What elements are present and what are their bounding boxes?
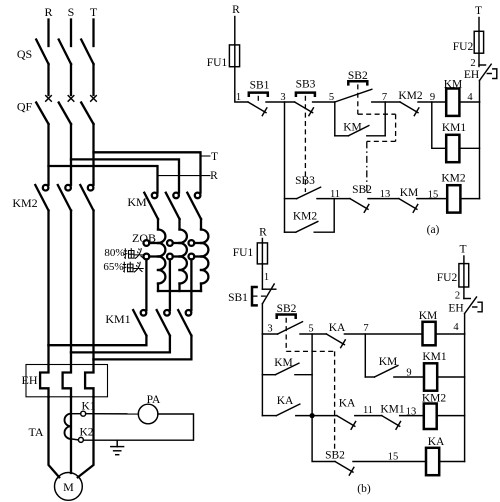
wire T to motor	[78, 397, 94, 478]
node K1 terminal	[71, 411, 86, 416]
relay EH box	[26, 365, 108, 397]
label KM1 coil (b)	[422, 351, 447, 363]
node 13 (b)	[406, 407, 417, 418]
node 2 (a)	[470, 58, 475, 69]
label K2	[79, 427, 93, 439]
wire PA loop to K2	[83, 414, 193, 440]
wire ZOB star point bus	[158, 290, 201, 292]
coil KM1 (a)	[446, 135, 459, 162]
breaker QF pole S	[59, 96, 74, 124]
svg-text:2: 2	[470, 58, 475, 69]
wire coil KM to node 4 (a)	[459, 101, 479, 103]
svg-text:T: T	[475, 5, 482, 17]
wire SB3 to node 5 (a)	[313, 101, 335, 103]
label KA mid (b)	[339, 398, 356, 410]
label SB3 (a)	[296, 79, 316, 91]
label FU1 (a)	[207, 57, 228, 69]
motor M	[55, 473, 83, 501]
node R control tap label	[210, 170, 218, 182]
svg-text:SB3: SB3	[295, 175, 315, 187]
wire node 5 drop (b)	[311, 334, 313, 416]
label KM1 NC (b)	[380, 404, 405, 416]
svg-text:4: 4	[453, 322, 459, 333]
contactor KM1 contact 3	[178, 310, 191, 336]
wire KM lower to coil KM2 (a)	[417, 198, 447, 200]
coil KM (b)	[423, 322, 436, 346]
node 11 (a)	[330, 189, 340, 200]
label SB2 lower (a)	[352, 184, 372, 196]
wire S QF to KM2 contact	[70, 124, 72, 185]
svg-text:5: 5	[329, 92, 334, 103]
svg-text:KA: KA	[277, 395, 294, 407]
svg-text:KM1: KM1	[380, 404, 405, 416]
wire FU2 to EH contact (a)	[478, 53, 480, 66]
wire R to motor	[49, 397, 60, 478]
node R supply (b)	[259, 227, 267, 239]
label 65% tap (65% chou-tou)	[103, 261, 143, 273]
svg-text:KA: KA	[428, 436, 445, 448]
wire 65% tap 3 down to KM1	[190, 259, 192, 310]
wire to KM contact (b left)	[262, 374, 275, 376]
wire right rail (b)	[464, 334, 466, 462]
button SB2 lower NC contact (a)	[350, 199, 369, 213]
svg-text:M: M	[63, 480, 74, 494]
wire KM2 aux to node 11 (a)	[314, 199, 334, 233]
node T supply (a)	[475, 5, 482, 17]
button SB1 NC contact (a)	[248, 102, 267, 116]
label KM2 coil (b)	[422, 393, 447, 405]
svg-text:KA: KA	[339, 398, 356, 410]
wire coil KM to node 4 (b)	[436, 333, 465, 335]
node 15 (b)	[388, 452, 399, 463]
contact KM2 NC interlock (a)	[400, 102, 419, 116]
svg-text:65%: 65%	[103, 261, 123, 273]
linkage SB1 dashed (b)	[253, 295, 267, 297]
node ZOB winding 2 80% tap	[167, 240, 180, 246]
wire KM contact 1 to winding	[157, 219, 159, 230]
wire R drop (b)	[261, 239, 263, 243]
button SB1 cap (b)	[252, 287, 257, 305]
label EH (b)	[448, 303, 463, 315]
relay contact KA NC (b main rung)	[326, 334, 345, 348]
wire node 3 branch down (a)	[284, 102, 286, 232]
node 15 (a)	[428, 190, 439, 201]
label QF	[17, 100, 33, 114]
button SB2 NO contact (b)	[278, 322, 303, 334]
fuse FU1 (a)	[229, 45, 239, 67]
wire coil KM1 to rail (b)	[437, 376, 464, 378]
relay contact EH NC (a)	[479, 64, 497, 80]
label FU1 (b)	[233, 247, 254, 259]
svg-text:(a): (a)	[427, 224, 440, 236]
wire S KM2 down to junction	[70, 211, 72, 353]
wire FU1 to rung (a)	[235, 67, 248, 102]
button SB1 NC contact vertical (b)	[262, 284, 275, 304]
heater EH element 2	[63, 352, 71, 396]
wire node 3 to SB2 (b)	[262, 333, 277, 335]
svg-text:80%: 80%	[104, 247, 124, 259]
wire R drop (a)	[234, 17, 236, 45]
label KA coil (b)	[428, 436, 445, 448]
svg-text:R: R	[210, 170, 218, 182]
svg-text:1: 1	[236, 92, 241, 103]
node 11 (b)	[363, 405, 373, 416]
wire R QF to KM2 contact	[47, 124, 49, 185]
wire branch line from R phase	[49, 166, 158, 193]
svg-text:R: R	[259, 227, 267, 239]
node 13 (a)	[380, 189, 391, 200]
label KM (b left)	[274, 357, 293, 369]
svg-text:KM: KM	[343, 122, 362, 134]
svg-text:QS: QS	[17, 47, 32, 61]
svg-text:11: 11	[363, 405, 373, 416]
label SB1 (a)	[250, 80, 270, 92]
node 7 (a)	[382, 92, 387, 103]
label QS	[17, 47, 32, 61]
contact KM2 NO aux (a)	[296, 222, 318, 233]
wire EH to node 4 (b)	[464, 314, 466, 335]
label KM coil (b)	[419, 310, 438, 322]
coil KM1 (b)	[424, 363, 437, 390]
svg-text:KM: KM	[127, 195, 147, 209]
svg-text:1: 1	[264, 272, 269, 283]
wire T QF to KM2 contact	[92, 124, 94, 185]
node 3 (a)	[280, 92, 285, 103]
contact KM NO self-hold (a)	[348, 126, 368, 136]
svg-text:FU2: FU2	[437, 272, 458, 284]
label 80% tap (80% chou-tou)	[104, 247, 144, 259]
contactor KM2 contact R	[35, 185, 48, 211]
svg-text:EH: EH	[22, 373, 38, 387]
node ZOB winding 2 65% tap	[167, 254, 180, 260]
svg-text:KM: KM	[444, 79, 463, 91]
wire EH to node 4 rail (a)	[479, 81, 481, 103]
button SB2 cap (b)	[277, 315, 296, 318]
node R phase label	[44, 5, 52, 19]
switch QS pole R	[36, 40, 48, 65]
svg-text:11: 11	[330, 189, 340, 200]
wire KA NC to node 11 (b)	[355, 415, 382, 417]
svg-text:5: 5	[308, 324, 313, 335]
wire SB3 lower to node 11 (a)	[317, 198, 350, 200]
ground symbol	[111, 440, 124, 455]
contact KM NC interlock lower (a)	[399, 199, 418, 213]
label (b)	[357, 483, 371, 495]
wire KM left to node5 drop (b)	[295, 374, 312, 376]
wire stub to T control tap	[201, 155, 211, 157]
wire S through TA to motor	[70, 397, 72, 473]
wire KM1 NC to node 13 to coil KM2 (b)	[400, 415, 424, 417]
svg-text:KM: KM	[379, 356, 398, 368]
label KA (b main)	[329, 322, 346, 334]
node 4 (a)	[467, 92, 473, 103]
wire T KM2 down to junction	[92, 211, 94, 360]
wire T QS to QF	[92, 64, 94, 95]
wire coil KM2 to rail (b)	[437, 415, 465, 417]
wire node 7 branch down (b)	[365, 334, 374, 377]
svg-text:15: 15	[388, 452, 399, 463]
heater EH element 1	[40, 345, 48, 397]
wire K1 to ammeter PA	[86, 413, 139, 415]
button SB2 NO contact (a)	[335, 89, 372, 102]
ammeter PA	[138, 404, 158, 424]
wire dot to KA NC (b)	[312, 415, 337, 417]
coil KM2 (b)	[424, 404, 437, 430]
wire dot down to bottom rung (b)	[312, 416, 335, 462]
contactor KM2 contact T	[80, 185, 93, 211]
label EH (a)	[464, 69, 479, 81]
wire to KA contact (b left)	[262, 415, 276, 417]
contact KM1 NC interlock (b)	[382, 416, 401, 430]
contactor KM1 contact 1	[133, 310, 146, 336]
svg-text:PA: PA	[147, 394, 161, 406]
svg-text:KM1: KM1	[442, 122, 467, 134]
svg-text:R: R	[44, 5, 52, 19]
svg-text:SB3: SB3	[296, 79, 316, 91]
linkage SB2 dashed (a)	[358, 84, 396, 141]
label KM self-hold (a)	[343, 122, 362, 134]
svg-text:FU1: FU1	[207, 57, 228, 69]
coil KM2 (a)	[447, 185, 460, 212]
svg-text:SB2: SB2	[352, 184, 372, 196]
wire KM2 to coil KM (a)	[418, 101, 446, 103]
label FU2 (b)	[437, 272, 458, 284]
wire KM1 contact 1 to phase 1	[49, 336, 147, 346]
contactor KM1 contact 2	[157, 310, 170, 336]
node 3 (b)	[267, 324, 272, 335]
svg-text:15: 15	[428, 190, 439, 201]
svg-text:T: T	[459, 244, 466, 256]
svg-text:QF: QF	[17, 100, 33, 114]
label SB3 lower (a)	[295, 175, 315, 187]
svg-text:KM: KM	[419, 310, 438, 322]
svg-text:FU2: FU2	[453, 41, 474, 53]
contact KM NO (b left branch)	[275, 363, 299, 375]
node ZOB winding 3 65% tap	[189, 254, 202, 260]
wire S QS to QF	[70, 64, 72, 95]
node 5 (a)	[329, 92, 334, 103]
svg-text:(b): (b)	[357, 483, 371, 495]
svg-text:KM2: KM2	[12, 196, 37, 210]
svg-text:KM2: KM2	[293, 211, 318, 223]
wire 65% tap 2 down to KM1	[169, 259, 171, 310]
inductor ZOB winding 2	[180, 230, 187, 292]
label KM2 main contactor	[12, 196, 37, 210]
wire T incoming	[92, 20, 94, 47]
svg-text:FU1: FU1	[233, 247, 254, 259]
svg-text:SB1: SB1	[228, 292, 248, 304]
contact KM NO self-hold (b)	[374, 366, 398, 378]
contactor KM contact 2	[166, 193, 180, 219]
wire KA to node 7 (b)	[344, 333, 422, 335]
node ZOB winding 1 65% tap	[144, 254, 159, 260]
linkage SB3 dashed (a)	[304, 96, 306, 192]
svg-text:R: R	[232, 4, 240, 16]
wire R KM2 down to junction	[47, 211, 49, 346]
switch QS pole T	[81, 40, 93, 65]
button SB3 lower NO contact (a)	[297, 187, 321, 198]
wire node 3 branch down left (b)	[261, 334, 263, 416]
svg-text:2: 2	[455, 291, 460, 302]
svg-text:9: 9	[406, 368, 411, 379]
coil KM (a)	[446, 89, 459, 116]
label (a)	[427, 224, 440, 236]
node T phase label	[90, 5, 98, 19]
label SB2 (a)	[348, 70, 368, 82]
node T supply (b)	[459, 244, 466, 256]
coil KA (b)	[426, 448, 439, 475]
wire R incoming	[47, 20, 49, 47]
wire SB2 lower to node 13 (a)	[368, 198, 399, 200]
contact KM self-hold branch left wire (a)	[335, 102, 349, 136]
svg-text:KM1: KM1	[105, 312, 130, 326]
wire branch to SB3 lower (a)	[285, 198, 297, 200]
wire FU2 to EH (b)	[463, 287, 465, 299]
node 7 (b)	[363, 323, 368, 334]
node 1 (b)	[264, 272, 269, 283]
svg-text:SB2: SB2	[325, 450, 345, 462]
wire T drop (a)	[478, 18, 480, 32]
node K2 terminal	[71, 437, 84, 442]
breaker QF pole R	[36, 96, 51, 124]
node 5 (b)	[308, 324, 313, 335]
fuse FU1 (b)	[257, 243, 267, 264]
node 9 (b)	[406, 368, 411, 379]
wire KM1 contact 3 to phase 3	[94, 336, 192, 360]
winding TA secondary	[65, 414, 71, 439]
svg-text:T: T	[211, 151, 218, 163]
label KM1 star contactor	[105, 312, 130, 326]
wire right rail (a)	[479, 102, 481, 199]
svg-text:KM1: KM1	[422, 351, 447, 363]
wire R QS to QF	[47, 64, 49, 95]
junction dot (b)	[310, 413, 315, 418]
wire R control tap line	[158, 175, 211, 177]
svg-text:KM2: KM2	[398, 90, 423, 102]
svg-text:K1: K1	[81, 401, 95, 413]
svg-text:KM: KM	[274, 357, 293, 369]
label SB2 lower (b)	[325, 450, 345, 462]
label KM branch contactor	[127, 195, 147, 209]
wire node 9 branch down (a)	[432, 102, 446, 148]
node T control tap label	[211, 151, 218, 163]
label EH	[22, 373, 38, 387]
wire KM self-hold right (a)	[367, 102, 385, 136]
svg-text:SB2: SB2	[277, 303, 297, 315]
node S phase label	[68, 5, 75, 19]
wire KM contact 3 to winding	[200, 219, 202, 230]
wire SB2 lower to node 15 to coil KA (b)	[353, 461, 426, 463]
label KM self-hold (b)	[379, 356, 398, 368]
linkage SB2 dashed path (b)	[286, 318, 334, 453]
wire FU1 to SB1 (b)	[261, 264, 263, 289]
wire 65% tap 1 down to KM1	[145, 259, 147, 310]
wire S incoming	[70, 20, 72, 47]
svg-text:3: 3	[267, 324, 272, 335]
relay contact EH NC (b)	[464, 297, 482, 314]
wire SB1 to node 3 (a)	[266, 101, 295, 103]
button SB2 cap (a)	[348, 81, 367, 84]
node 4 (b)	[453, 322, 459, 333]
button SB3 NC contact (a)	[295, 102, 314, 116]
contactor KM2 contact S	[58, 185, 71, 211]
label K1	[81, 401, 95, 413]
node R supply (a)	[232, 4, 240, 16]
node ZOB winding 3 80% tap	[189, 240, 202, 246]
wire SB1 to node 3 (b)	[261, 304, 263, 334]
switch QS pole S	[59, 40, 71, 65]
fuse FU2 (b)	[459, 264, 469, 287]
svg-text:13: 13	[380, 189, 391, 200]
contactor KM contact 3	[187, 193, 201, 219]
svg-text:KM2: KM2	[441, 173, 466, 185]
wire KM to node 9 to coil KM1 (b)	[394, 376, 424, 378]
label KA (b left)	[277, 395, 294, 407]
label KM lower (a)	[400, 187, 419, 199]
wire coil KM1 to rail (a)	[459, 147, 479, 149]
wire SB2 to node 5 (b)	[300, 333, 326, 335]
label KM2 interlock (a)	[398, 90, 423, 102]
svg-text:13: 13	[406, 407, 417, 418]
node 1 (a)	[236, 92, 241, 103]
wire coil KA to rail (b)	[439, 461, 464, 463]
node 2 (b)	[455, 291, 460, 302]
contact KM2 aux self-hold branch (a)	[285, 231, 296, 233]
svg-text:7: 7	[363, 323, 368, 334]
contactor KM contact 1	[144, 193, 158, 219]
wire T drop (b)	[463, 256, 465, 264]
breaker QF pole T	[81, 96, 96, 124]
linkage SB2 dash-dot down to lower contact (a)	[366, 141, 368, 191]
wire SB2 to node 7 (a)	[372, 101, 400, 103]
button SB3 cap (a)	[296, 93, 315, 96]
wire branch line from S phase	[71, 159, 179, 192]
label TA current transformer	[28, 425, 43, 439]
label FU2 (a)	[453, 41, 474, 53]
wire branch line from T phase	[94, 152, 201, 192]
svg-text:EH: EH	[464, 69, 479, 81]
label KM coil (a)	[444, 79, 463, 91]
svg-text:SB2: SB2	[348, 70, 368, 82]
svg-text:KA: KA	[329, 322, 346, 334]
svg-text:4: 4	[467, 92, 473, 103]
label PA	[147, 394, 161, 406]
node 9 (a)	[430, 92, 435, 103]
wire KM contact 2 to winding	[178, 219, 180, 230]
label KM1 coil (a)	[442, 122, 467, 134]
svg-text:TA: TA	[28, 425, 43, 439]
label KM2 aux (a)	[293, 211, 318, 223]
heater EH element 3	[85, 359, 93, 396]
wire KM1 contact 2 to phase 2	[71, 336, 170, 353]
button SB2 lower NC contact (b)	[335, 462, 354, 476]
node ZOB winding 1 80% tap	[144, 240, 159, 246]
label KM2 coil (a)	[441, 173, 466, 185]
label ZOB autotransformer	[132, 231, 156, 245]
contact KA NO (b left branch)	[276, 404, 300, 416]
svg-text:KM2: KM2	[422, 393, 447, 405]
fuse FU2 (a)	[474, 31, 483, 53]
svg-text:EH: EH	[448, 303, 463, 315]
label SB2 (b)	[277, 303, 297, 315]
button SB1 cap (a)	[249, 93, 268, 96]
svg-text:KM: KM	[400, 187, 419, 199]
label SB1 (b)	[228, 292, 248, 304]
relay contact KA NC (b mid rung)	[337, 416, 356, 430]
inductor ZOB winding 1	[158, 230, 165, 292]
inductor ZOB winding 3	[201, 230, 208, 292]
svg-text:T: T	[90, 5, 98, 19]
